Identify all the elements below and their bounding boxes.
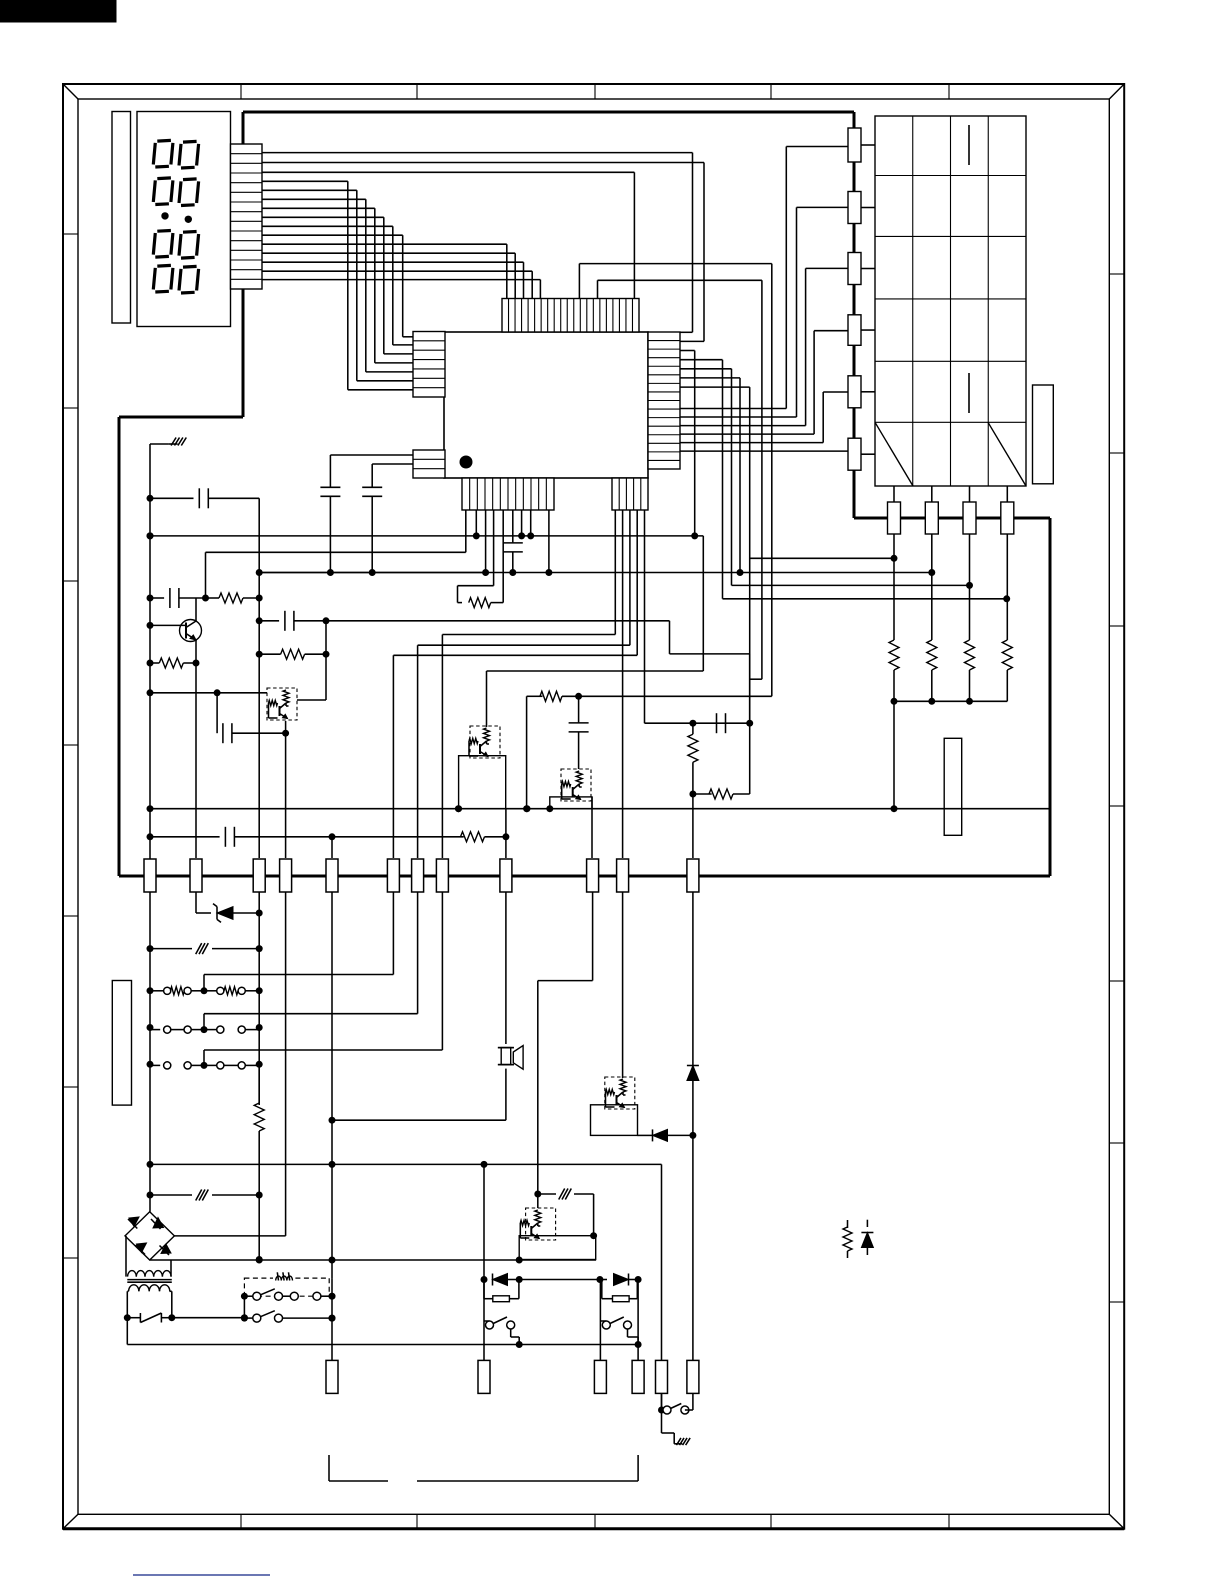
diode D2 [687,892,699,1135]
bottom rail y1345 [127,1318,641,1348]
left supply bus [147,498,154,876]
connector pin CN1-8 [436,859,448,892]
transformer T1 [124,1236,176,1321]
wire IC pin to Q1 node [206,551,466,553]
IC top pin header [502,299,639,333]
wire keypad row 1 to grid [861,144,875,146]
connector pin CN2-2 [478,1360,490,1393]
connector pin CN2-1 [326,1360,338,1393]
resistor R11 keypad row 1 [848,128,861,168]
wire display pin3 to IC top [262,172,634,298]
fusible resistor FR1 [150,943,263,954]
relay contact row 1 [241,1289,336,1300]
resistor R15 keypad row 5 [848,376,861,414]
connector pin CN2-6 [687,1360,699,1393]
switch row SW2 [150,1062,259,1069]
wire column rail down [891,701,898,812]
wire Q1 base row [150,689,267,696]
resistor R7 [150,658,196,668]
resistor R41 keypad column 1 pull [889,640,899,701]
wire keypad row5 to IC [680,392,848,443]
wire keypad row1 to IC [680,147,848,409]
wire Q6 emitter to connector [195,663,197,858]
wire keypad column 4 down [1006,534,1008,640]
display bezel strip [112,112,131,324]
wire node x326 [326,621,750,794]
wire display pin6 to IC left [262,199,413,372]
wire keypad row 4 to grid [861,329,875,331]
switch SW4 [600,1280,638,1361]
resistor R43 keypad column 3 pull [965,640,975,701]
IC left upper pin header [413,332,445,398]
resistor R8 [259,649,329,659]
transistor Q3 digital [546,769,592,858]
bracket label [329,1455,638,1481]
resistor R15 pack [602,1280,638,1302]
wire SW2 to pin8 [204,892,442,1065]
IC bottom pin header B [612,478,648,510]
wire display pin1 to IC right [262,152,693,154]
wire IC pin B1 to connector pin8 [442,510,615,858]
pin 1 marker [460,456,473,469]
wire pin10 routing [538,892,593,1194]
ground GND1 [150,438,186,499]
switch SW3 [484,1280,519,1361]
wire pin CN2-6 down [692,1135,694,1360]
wire keypad row 2 to grid [861,207,875,209]
keypad matrix switch grid [875,116,1026,486]
label box lower left [112,981,131,1106]
wire keypad column 1 stub [893,486,895,502]
title block redaction bar [0,0,116,22]
node power rail y536 [147,532,704,539]
resistor R5 oscillator [458,510,504,608]
switch row SW1 [150,1026,259,1033]
wire Q3 node to connector [692,794,694,858]
main rail y1164 [150,1161,662,1410]
relay frame wires [244,1278,332,1360]
wire keypad row 6 to grid [861,453,875,455]
wire IC pin B5 to RC node [645,510,693,723]
capacitor C2 [150,552,209,608]
connector pin CN1-11 [617,859,629,892]
connector pin CN1-3 [253,859,265,892]
digit 3 [153,231,198,259]
capacitor C8 [150,827,336,858]
resistor R14 keypad row 4 [848,315,861,352]
wire keypad row2 to IC [680,207,848,417]
buzzer BZ1 [498,892,523,1120]
keypad side label box [1033,385,1054,484]
resistor R6 [206,593,263,603]
keypad diagonal key bottom-right [988,422,1026,486]
wire fuse row [173,1314,248,1321]
IC right pin header [648,332,680,469]
connector pin CN2-3 [594,1360,606,1393]
wire keypad row 5 to grid [861,391,875,393]
wire keypad column 4 stub [1006,486,1008,502]
wire keypad column 3 stub [969,486,971,502]
wire display pin11 to IC top [262,244,507,298]
wire pin11 to Q4 [622,892,624,1078]
digit 2 [153,178,198,206]
varistor R16 [843,1220,852,1258]
wire display pin8 to IC left [262,217,413,354]
capacitor C1 [147,488,260,572]
IC bottom pin header A [462,478,554,510]
wire display pin12 to IC top [262,253,515,298]
diode D6 transil [861,1220,873,1255]
bridge rectifier D1 [125,1212,174,1260]
keypad key mark row5 [968,373,970,413]
connector pin CN2-4 [632,1360,644,1393]
vertical bus x259 [256,573,263,859]
wire keypad row3 to IC [680,268,848,425]
wire pin5 chain [329,892,336,1322]
capacitor C10 [717,713,726,733]
zener diode ZD1 [196,904,263,923]
wire pin D5 node down [637,1280,639,1361]
wire IC to keypad column2 [259,378,935,576]
node rail y808 [150,805,1050,812]
wire keypad column 2 stub [931,486,933,502]
wire keypad row 3 to grid [861,268,875,270]
wire display pin2 to IC pin2 [680,163,704,342]
wire Q4 emitter [590,1134,592,1136]
connector pin CN2-5 [656,1360,668,1393]
wire pin2 to zener [195,892,197,913]
wire bridge plus to pin4 [174,892,285,1236]
left bus lower [147,892,154,1212]
wire IC pin B3 to connector pin7 [418,510,630,858]
transistor Q4 digital [591,1077,638,1135]
buzzer rail [329,1117,506,1124]
resistor R11 [688,723,698,797]
wire IC top pin routing B [598,280,762,679]
microcontroller U1 [444,332,648,478]
resistor R21 keypad column 1 [888,502,901,534]
connector pin CN1-4 [280,859,292,892]
IC left lower pin header [413,450,445,478]
resistor R23 keypad column 3 [963,502,976,534]
transistor Q6 [150,598,202,667]
resistor R22 keypad column 2 [925,502,938,534]
wire display pin2 to IC right [262,162,704,164]
wire Q1 emitter to connector [285,721,287,858]
switch SW5 door [658,1393,693,1414]
7-segment display module DS1 [137,112,231,327]
capacitor C9 [569,696,589,769]
digit 4 [153,265,198,293]
wire keypad column 3 down [969,534,971,640]
wire IC to keypad column4 [680,360,1010,603]
connector pin CN1-9 [500,859,512,892]
connector pin CN1-6 [387,859,399,892]
keypad column common rail [891,698,1008,705]
capacitor C4 [482,510,552,576]
footer link underline [133,1574,270,1576]
capacitor C6 [362,464,413,576]
relay RY1 [244,1271,329,1296]
capacitor C7 [217,693,289,743]
wire display pin13 to IC top [262,262,524,298]
wire display pin4 to IC left [262,181,413,389]
display pin header [231,144,263,289]
resistor R13 keypad row 3 [848,253,861,291]
digit 1 [153,140,198,168]
capacitor C5 [320,455,413,576]
resistor R14 pack [484,1280,519,1302]
wire display pin10 to IC left [262,235,413,337]
relay contact row 2 [241,1311,336,1322]
node Q5 base [534,1191,541,1198]
resistor R42 keypad column 2 pull [927,640,937,701]
fusible resistor FR3 [538,1189,597,1240]
wire display pin14 to IC top [262,271,532,298]
connector pin CN1-10 [587,859,599,892]
variable resistor row VR1 VR2 [150,987,259,995]
transistor Q1 digital [267,654,326,720]
wire IC pin B4 to connector pin6 [393,510,637,858]
wire IC top pin routing A [575,264,772,700]
control panel block outline [119,112,1050,876]
wire keypad column 1 down [893,534,895,640]
connector pin CN1-7 [412,859,424,892]
connector pin CN1-12 [687,859,699,892]
resistor R13 [254,1064,264,1263]
ground GND2 [662,1410,691,1445]
wire display pin15 to IC top [262,280,540,299]
thermal cutout F1 [127,1313,173,1323]
colon [161,212,192,223]
diode D3 [638,1129,697,1141]
label box mid right [944,738,962,835]
wire SW1 to pin7 [204,892,418,1030]
wire IC to keypad column3 [680,369,973,589]
wire IC pins to node y572 [486,510,549,573]
resistor R44 keypad column 4 pull [1002,640,1012,701]
wire display pin5 to IC left [262,190,413,380]
transistor Q2 digital [455,726,506,812]
wire IC power rail junctions [466,510,531,552]
resistor R24 keypad column 4 [1001,502,1014,534]
wire display pin9 to IC left [262,226,413,345]
keypad diagonal key bottom-left [875,422,913,486]
resistor R10 [523,691,579,812]
connector pin CN1-5 [326,859,338,892]
resistor R16 keypad row 6 [848,438,861,476]
wire keypad row4 to IC [680,331,848,434]
diode D5 [600,1274,642,1286]
diode D4 [481,1164,604,1285]
wire bridge bottom rail [150,1257,596,1264]
connector pin CN1-2 [190,859,202,892]
wire IC to keypad column1 [680,387,898,723]
wire IC pin3 to supply rail [680,351,698,540]
node wire y572 left [256,569,486,576]
keypad key mark row1 [968,125,970,165]
wire display pin7 to IC left [262,208,413,363]
node RC right [689,720,753,727]
transistor Q5 digital [519,1194,596,1260]
wire display pin1 to IC pin1 [680,153,693,333]
bus x259 lower [256,892,263,1105]
resistor R9 [332,809,509,858]
capacitor C3 [259,611,329,631]
wire keypad column 2 down [931,534,933,640]
resistor R12 [693,789,750,799]
wire keypad row6 to IC [680,450,848,452]
wire IC pin B2 to connector [622,510,624,858]
resistor R12 keypad row 2 [848,192,861,230]
wire VR wiper to pin6 [204,892,393,991]
wire rail to Q2 drive [487,536,704,727]
sheet border frame [63,84,1124,1529]
fusible resistor FR2 [150,1190,263,1201]
connector pin CN1-1 [144,859,156,892]
